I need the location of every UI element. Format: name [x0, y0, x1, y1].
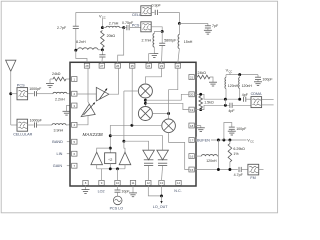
capacitor 4pF (IF-) [229, 103, 231, 108]
filter CDMA [251, 97, 262, 108]
svg-text:22: 22 [176, 64, 180, 68]
svg-text:17: 17 [190, 138, 194, 142]
wire to pin 1 [66, 78, 70, 80]
pin 2 [72, 91, 77, 96]
source PCS LO [113, 196, 122, 205]
wire pin22 to mixer M3 [169, 68, 178, 119]
capacitor 0.9pF [151, 11, 154, 13]
wire pin 19 out [195, 105, 230, 109]
svg-text:2.7nH: 2.7nH [109, 22, 119, 26]
antenna [6, 60, 16, 71]
filter CELLULAR duplexer [17, 119, 28, 131]
node LO A2 [109, 147, 112, 150]
wire pin 15 out [195, 169, 238, 171]
pin 16 [189, 154, 194, 159]
svg-text:PCS: PCS [132, 24, 140, 28]
wire [37, 124, 52, 126]
wire VCC rail (IF) [226, 74, 258, 76]
wire FM out [259, 169, 264, 171]
svg-text:BUFEN: BUFEN [197, 139, 210, 143]
svg-text:19: 19 [190, 108, 194, 112]
svg-text:28: 28 [85, 64, 89, 68]
svg-text:PCS LO: PCS LO [110, 207, 124, 211]
node pin25 tap [130, 124, 133, 127]
svg-text:BAND: BAND [52, 140, 63, 144]
pin 6 [72, 151, 77, 156]
wire IF- to pin 19 [145, 103, 189, 109]
node VCC tank [101, 26, 104, 29]
varactor D2 [162, 149, 164, 150]
svg-text:CELL: CELL [132, 13, 141, 17]
capacitor 100pF (VCC) [257, 75, 259, 77]
node bus A [109, 167, 112, 170]
wire CDMA out- [262, 104, 274, 106]
mixer M2 [138, 107, 152, 121]
node IF- [144, 102, 147, 105]
wire pin 20 out [195, 94, 241, 99]
node buf bottom B [228, 168, 231, 171]
node L2 bottom [238, 98, 241, 101]
svg-text:26: 26 [116, 64, 120, 68]
node antenna split [9, 92, 12, 95]
capacitor 2.7pF [75, 12, 77, 26]
svg-text:CC: CC [229, 70, 233, 74]
wire to CELLULAR duplexer [11, 124, 17, 126]
svg-text:4.7pF: 4.7pF [234, 173, 244, 177]
capacitor 100pF (buf) [224, 123, 232, 141]
svg-text:16: 16 [190, 154, 194, 158]
inductor 3.9nH [52, 124, 66, 125]
node mixer3 LO [167, 112, 170, 115]
svg-text:25: 25 [131, 64, 135, 68]
svg-text:14: 14 [177, 181, 181, 185]
wire pin 25 down [131, 68, 133, 125]
wire top link [76, 11, 141, 13]
pin 14 [176, 180, 181, 185]
label BUFEN [197, 137, 211, 142]
svg-text:13: 13 [160, 181, 164, 185]
pin 13 [159, 180, 164, 185]
wire pin23 to mixer M1 [145, 68, 161, 84]
wire LO to mixer M1 [124, 90, 138, 92]
svg-text:CC: CC [250, 140, 254, 144]
pin 10 [115, 180, 120, 185]
svg-text:LO2: LO2 [98, 189, 105, 193]
inductor 2.7nH (tank) [102, 27, 106, 29]
ground (pin 3) [63, 110, 71, 112]
wire mixer M3 to pin 15 [169, 133, 190, 170]
filter FM [248, 164, 259, 175]
amplifier LNA1 [76, 93, 96, 95]
pin 7 [72, 163, 77, 168]
amplifier LNA2 [81, 104, 95, 116]
node LO B [122, 140, 125, 143]
node IF+ [144, 99, 147, 102]
svg-text:11: 11 [131, 181, 134, 185]
svg-text:20kΩ: 20kΩ [107, 34, 116, 38]
pin 11 [130, 180, 135, 185]
ground (pin18) [197, 127, 205, 129]
svg-text:27: 27 [100, 64, 104, 68]
wire tie [224, 99, 226, 105]
svg-text:0.9pF: 0.9pF [152, 3, 162, 7]
wire pin4 to LNA2 [76, 115, 88, 124]
node LO top [178, 22, 181, 25]
svg-text:23: 23 [160, 64, 164, 68]
svg-text:21: 21 [190, 75, 194, 79]
svg-text:2.7nH: 2.7nH [142, 39, 152, 43]
amplifier A (LO) [91, 152, 103, 165]
svg-text:24kΩ: 24kΩ [52, 72, 61, 76]
svg-text:100pF: 100pF [262, 77, 273, 81]
wire to pin 2 [67, 93, 70, 95]
mixer M3 [162, 119, 176, 133]
pin 1 [72, 77, 77, 82]
wire pin 28 to LNA2 out [88, 68, 89, 104]
pin 24 [146, 63, 151, 68]
node bus B [116, 167, 119, 170]
node PCS tank [161, 30, 164, 33]
ground (100pF buf) [228, 130, 236, 132]
wire [37, 93, 53, 95]
node tank left [74, 49, 77, 52]
ground (pin21) [209, 81, 217, 83]
wire to ground [210, 77, 213, 82]
capacitor 4.7pF [238, 167, 240, 172]
wire pin10 riser [117, 169, 119, 181]
wire [28, 124, 34, 126]
node L1 bottom [224, 98, 227, 101]
filter CELL SAW [141, 6, 151, 16]
capacitor 5800pF [161, 32, 163, 44]
node 1.5k top [199, 93, 202, 96]
wire LO chain A [109, 125, 111, 153]
svg-text:5800pF: 5800pF [164, 38, 177, 42]
wire pin24 to ground [149, 54, 155, 63]
pin 12 [146, 180, 151, 185]
wire to 7pF [179, 22, 208, 24]
wire to varactor D1 [124, 141, 149, 149]
wire BUFEN rail [195, 139, 246, 141]
ground (7pF) [204, 29, 212, 31]
pin 17 [189, 138, 194, 143]
wire pin9 riser [101, 169, 103, 181]
svg-text:LO_OUT: LO_OUT [153, 205, 169, 209]
svg-text:15: 15 [190, 168, 194, 172]
filter PCS duplexer [17, 88, 28, 100]
wire [28, 93, 34, 95]
node rail A [217, 139, 220, 142]
node buf bottom A [217, 168, 220, 171]
svg-text:2.7pF: 2.7pF [57, 26, 67, 30]
wire to varactor D2 [110, 136, 162, 150]
node 1.5k bottom [199, 108, 202, 111]
node L2 top [238, 73, 241, 76]
wire LO input bus [96, 165, 98, 169]
svg-text:GAIN: GAIN [53, 164, 63, 168]
pin 25 [130, 63, 135, 68]
pin 4 [72, 122, 77, 127]
pin 20 [189, 92, 194, 97]
wire pin 18 gnd [195, 125, 201, 127]
wire pin3 to ground [67, 106, 70, 112]
arrow LO_OUT [161, 196, 163, 202]
wire IF+ to pin 20 [145, 94, 189, 100]
capacitor 0.75pF [124, 27, 127, 29]
divider /2 [105, 153, 116, 164]
svg-text:÷2: ÷2 [108, 157, 113, 162]
wire mixer M2 out [152, 113, 168, 115]
resistor 1.5k [199, 96, 203, 108]
svg-text:100pF: 100pF [236, 127, 247, 131]
node 20k bottom [101, 48, 104, 51]
wire to PCS duplexer [11, 93, 17, 95]
wire pins 12/13 join [148, 185, 161, 196]
svg-text:4pF: 4pF [228, 109, 235, 113]
svg-text:120nH: 120nH [242, 84, 253, 88]
capacitor 7pF [207, 23, 209, 25]
wire LNA1 out to pin 26 [109, 68, 119, 94]
svg-text:120nH: 120nH [228, 84, 239, 88]
svg-text:24kΩ: 24kΩ [198, 71, 207, 75]
wire LO chain B [123, 91, 125, 141]
svg-text:CELLULAR: CELLULAR [13, 133, 32, 137]
wire pin 16 [195, 155, 201, 157]
svg-text:1.5kΩ: 1.5kΩ [204, 101, 214, 105]
pin 22 [175, 63, 180, 68]
node tie [224, 104, 227, 107]
pin 23 [159, 63, 164, 68]
pin 18 [189, 123, 194, 128]
inductor 15nH [178, 23, 180, 34]
svg-text:15nH: 15nH [184, 40, 193, 44]
node LO_OUT [160, 194, 163, 197]
wire mixer3 in [110, 124, 162, 126]
svg-text:4pF: 4pF [242, 93, 249, 97]
node LO A1 [109, 134, 112, 137]
pin 8 [83, 180, 88, 185]
resistor 24k (pin21) [198, 75, 211, 79]
wire pin26 to tank [118, 28, 124, 63]
op-amp U1 MAX2338 body [70, 62, 196, 186]
svg-text:1%: 1% [233, 152, 239, 156]
wire tank to pin 28 [76, 50, 87, 62]
pin 5 [72, 139, 77, 144]
capacitor 10pF [117, 185, 119, 190]
resistor 20k [101, 31, 105, 48]
svg-text:CDMA: CDMA [251, 92, 262, 96]
wire buf vertical [217, 140, 219, 170]
svg-text:12: 12 [147, 181, 151, 185]
inductor 2.7nH (pin24) [154, 32, 162, 34]
inductor 120nH (L2) [239, 75, 241, 78]
wire PCS saw out [151, 27, 162, 32]
svg-text:7pF: 7pF [212, 24, 219, 28]
svg-text:1000pF: 1000pF [29, 87, 42, 91]
wire mixer column [144, 98, 146, 107]
node tank mid [122, 26, 125, 29]
pin 19 [189, 107, 194, 112]
svg-text:24: 24 [147, 64, 151, 68]
ground (R1) [46, 83, 54, 85]
svg-text:3.9nH: 3.9nH [54, 128, 64, 132]
inductor 120nH (pin16) [201, 155, 217, 157]
svg-text:PCS: PCS [17, 84, 25, 88]
mixer M1 [138, 84, 152, 98]
pin 3 [72, 103, 77, 108]
svg-text:MAX2338: MAX2338 [83, 132, 104, 137]
svg-text:N.C.: N.C. [174, 189, 181, 193]
varactor D1 [148, 149, 150, 150]
wire to amp A apex [97, 148, 111, 152]
svg-text:8.2nH: 8.2nH [76, 40, 86, 44]
ground (pin8) [85, 185, 87, 189]
svg-text:18: 18 [190, 124, 194, 128]
svg-text:LIN: LIN [57, 152, 63, 156]
capacitor (pin27) [101, 50, 103, 55]
ground (VCC cap) [254, 81, 262, 83]
capacitor 4pF (IF+) [243, 97, 245, 102]
pin 28 [84, 63, 89, 68]
capacitor 1000pF (PCS path) [33, 91, 35, 96]
svg-text:120nH: 120nH [206, 159, 217, 163]
svg-text:20: 20 [190, 93, 194, 97]
inductor 2.2nH [53, 92, 67, 93]
wire to pin 4 [66, 124, 70, 126]
ground (pin11) [132, 185, 134, 193]
wire LO B to doubler amp [124, 141, 125, 152]
inductor 120nH (L1) [225, 75, 227, 78]
border frame [1, 1, 277, 213]
resistor 24k (pin1) [53, 77, 66, 81]
wire LO node vertical [178, 12, 180, 23]
node rail B [222, 139, 225, 142]
inductor 8.2nH [78, 48, 99, 50]
pin 26 [115, 63, 120, 68]
wire pin 21 [195, 76, 197, 78]
wire divider bottom [109, 164, 111, 169]
svg-text:FM: FM [250, 176, 255, 180]
pin 21 [189, 75, 194, 80]
node rail C [228, 139, 231, 142]
pin 15 [189, 167, 194, 172]
pin 9 [99, 180, 104, 185]
svg-text:10: 10 [116, 181, 120, 185]
svg-text:2.2nH: 2.2nH [55, 98, 65, 102]
capacitor 1000pF (cellular path) [33, 122, 35, 127]
amplifier B (LO) [119, 152, 131, 165]
svg-text:1000pF: 1000pF [30, 118, 43, 122]
resistor 6.29k [229, 140, 231, 144]
ground (pin24 tank) [150, 53, 158, 55]
filter PCS SAW [141, 22, 151, 32]
wire CDMA out+ [262, 98, 274, 100]
wire antenna to cellular [10, 94, 12, 125]
pin 27 [99, 63, 104, 68]
svg-text:6.29kΩ: 6.29kΩ [233, 147, 245, 151]
